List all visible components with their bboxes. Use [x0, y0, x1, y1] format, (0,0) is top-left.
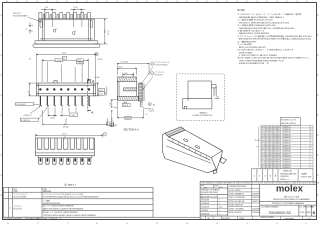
- boxed datum label 17.50: [55, 59, 63, 62]
- svg-text:MATERIAL AND FINISHES : SEE TA: MATERIAL AND FINISHES : SEE TABLE 1: [239, 16, 284, 19]
- svg-text:53.0: 53.0: [277, 162, 280, 164]
- svg-text:NTS: NTS: [219, 187, 224, 189]
- datum box left bottom: [110, 124, 114, 127]
- svg-text:5304801060: 5304801060: [282, 156, 291, 158]
- svg-text:74.3: 74.3: [277, 151, 280, 153]
- svg-text:1.25: 1.25: [45, 7, 48, 9]
- frame ruler ticks right: [317, 15, 319, 195]
- svg-text:0.05 M: 0.05 M: [123, 105, 129, 107]
- svg-text:APPLICATION SPECIFICATION(CONN: APPLICATION SPECIFICATION(CONNECTOR MANU…: [239, 38, 311, 41]
- svg-text:58.9: 58.9: [270, 164, 273, 166]
- svg-text:78.9: 78.9: [273, 140, 276, 142]
- svg-text:48.8: 48.8: [273, 162, 276, 164]
- svg-text:16: 16: [310, 129, 312, 131]
- svg-text:8.06: 8.06: [119, 66, 122, 68]
- svg-text:43.8: 43.8: [266, 129, 269, 131]
- svg-text:KINK FORMED PIN : ②: KINK FORMED PIN : ②: [239, 62, 269, 65]
- svg-text:REV: REV: [312, 206, 315, 208]
- svg-text:PSD: PSD: [300, 212, 305, 214]
- svg-text:53048: 53048: [239, 218, 244, 220]
- overall dim: [36, 134, 103, 138]
- overall dim 21.1: [36, 54, 98, 83]
- svg-text:(3.75): (3.75): [73, 7, 78, 9]
- svg-text:76.6: 76.6: [266, 159, 269, 161]
- svg-text:85.5: 85.5: [270, 151, 273, 153]
- dim (1.25) top left: [41, 9, 56, 27]
- svg-text:(1.9): (1.9): [99, 90, 103, 92]
- svg-text:3: 3: [310, 164, 311, 166]
- svg-text:56.1: 56.1: [266, 137, 269, 139]
- svg-text:53048000-SD: 53048000-SD: [269, 211, 292, 215]
- bottom hatched band: [117, 96, 138, 100]
- feet: [39, 158, 91, 165]
- left rotated dim 3.40: [111, 100, 118, 108]
- svg-text:CIRCUIT SIZE: CIRCUIT SIZE: [301, 176, 313, 178]
- svg-text:2: 2: [104, 134, 105, 136]
- bottom sheet row: [281, 216, 303, 219]
- svg-text:5304801110: 5304801110: [282, 143, 291, 145]
- housing side outline: [188, 81, 211, 99]
- svg-text:molex: molex: [276, 183, 304, 194]
- svg-text:PRODUCT SPECIFICATION 51760002: PRODUCT SPECIFICATION 517600025-PS-000: [239, 21, 289, 24]
- svg-text:18.9: 18.9: [277, 126, 280, 128]
- svg-text:4: 4: [310, 162, 311, 164]
- svg-text:14: 14: [310, 134, 312, 136]
- svg-text:70.9: 70.9: [270, 134, 273, 136]
- top bumps: [54, 81, 91, 84]
- mid col revision rows: [228, 184, 260, 216]
- svg-text:5304801170: 5304801170: [282, 126, 291, 128]
- balloon labels right: [151, 61, 170, 76]
- title: [273, 197, 311, 201]
- svg-text:2010/04/09: 2010/04/09: [252, 208, 261, 210]
- section cut A-A: [88, 79, 91, 112]
- svg-text:P1: P1: [20, 218, 22, 220]
- svg-text:1.3: 1.3: [25, 29, 27, 31]
- svg-text:60.9: 60.9: [277, 134, 280, 136]
- svg-text:2 PLACES: 2 PLACES: [201, 206, 210, 209]
- caption: [193, 112, 213, 118]
- svg-text:65.3: 65.3: [261, 162, 264, 164]
- svg-text:(4.4): (4.4): [124, 73, 128, 75]
- svg-text:83.9: 83.9: [277, 143, 280, 145]
- svg-text:71.1: 71.1: [277, 145, 280, 147]
- svg-text:85.2: 85.2: [273, 164, 276, 166]
- svg-text:53048-□□□□: 53048-□□□□: [280, 178, 290, 181]
- svg-text:83.5: 83.5: [270, 140, 273, 142]
- svg-text:8: 8: [310, 151, 311, 153]
- svg-text:11.1: 11.1: [273, 132, 276, 134]
- svg-text:59.6: 59.6: [273, 134, 276, 136]
- svg-text:INITIAL REVISION:: INITIAL REVISION:: [229, 204, 244, 207]
- front face: [166, 146, 211, 163]
- svg-text:80.4: 80.4: [273, 151, 276, 153]
- svg-text:mm: mm: [204, 187, 208, 189]
- solder-tail bumps row: [39, 12, 91, 18]
- svg-text:62.2: 62.2: [266, 148, 269, 150]
- body: [36, 83, 95, 96]
- left col cells: [200, 184, 228, 194]
- svg-text:83.4: 83.4: [266, 145, 269, 147]
- svg-text:5304801030: 5304801030: [282, 164, 291, 166]
- svg-text:AG RA/TC: AG RA/TC: [222, 217, 231, 220]
- svg-text:B 2.80±0.05: B 2.80±0.05: [16, 104, 25, 106]
- svg-text:1 of 1: 1 of 1: [306, 218, 312, 220]
- svg-text:1 PLACE: 1 PLACE: [201, 209, 209, 212]
- small dim 1.2: [145, 108, 149, 110]
- svg-text:17.5: 17.5: [277, 164, 280, 166]
- svg-text:IN CASE OF KINKED PIN: IN CASE OF KINKED PIN: [193, 114, 213, 117]
- svg-text:PLUG HOUSING: PLUG HOUSING: [14, 197, 28, 199]
- oval boss 1: [53, 29, 55, 32]
- svg-text:70.9: 70.9: [273, 126, 276, 128]
- svg-text:±: ±: [219, 200, 220, 202]
- svg-text:12.4: 12.4: [270, 148, 273, 150]
- svg-text:5304801130: 5304801130: [282, 137, 291, 139]
- svg-text:0 PLACES: 0 PLACES: [201, 212, 210, 215]
- svg-text:2020/11/13: 2020/11/13: [252, 201, 260, 203]
- svg-text:△1.00: △1.00: [70, 114, 75, 117]
- svg-text:17: 17: [310, 126, 312, 128]
- dim 8.06: [117, 68, 136, 75]
- svg-text:銅下地メッキ 1.00 MICRO METER MINIMU: 銅下地メッキ 1.00 MICRO METER MINIMUM: [43, 211, 78, 214]
- svg-text:〈E〉: 〈E〉: [207, 217, 212, 220]
- svg-text:25.0: 25.0: [277, 148, 280, 150]
- svg-text:47.9: 47.9: [261, 156, 264, 158]
- svg-text:87.2: 87.2: [270, 143, 273, 145]
- svg-text:2: 2: [152, 73, 153, 75]
- lower overall dim under legs: [42, 110, 107, 125]
- svg-text:14.2: 14.2: [270, 137, 273, 139]
- pin exiting right: [211, 85, 218, 99]
- svg-text:5304801040: 5304801040: [282, 162, 291, 164]
- svg-text:6: 6: [310, 156, 311, 158]
- svg-text:9.10: 9.10: [105, 30, 107, 33]
- svg-text:N=1.25: N=1.25: [255, 140, 261, 142]
- svg-text:13.4: 13.4: [266, 143, 269, 145]
- svg-text:(5.75): (5.75): [108, 30, 110, 35]
- svg-text:39.5: 39.5: [261, 143, 264, 145]
- svg-text:TABLE 1: TABLE 1: [68, 183, 77, 186]
- svg-text:60.2: 60.2: [261, 132, 264, 134]
- svg-text:(0.64): (0.64): [95, 77, 100, 79]
- right vertical dim of front view: [96, 83, 99, 96]
- letter cells row: [251, 169, 313, 182]
- svg-text:5304801150: 5304801150: [282, 132, 291, 134]
- svg-text:DRWN: RWMARTIN: DRWN: RWMARTIN: [229, 193, 245, 196]
- document number row: [260, 205, 317, 216]
- svg-text:66.2: 66.2: [261, 137, 264, 139]
- svg-text:NOTES: NOTES: [237, 10, 245, 12]
- svg-text:APPLY FOR EVEN CIRCUIT: APPLY FOR EVEN CIRCUIT: [239, 46, 267, 49]
- svg-text:15.6: 15.6: [266, 151, 269, 153]
- svg-text:58.7: 58.7: [261, 159, 264, 161]
- svg-text:18.7: 18.7: [273, 145, 276, 147]
- pin column (cross hatched): [139, 83, 143, 101]
- centerline tick: [64, 136, 66, 139]
- svg-text:21.90: 21.90: [62, 134, 66, 136]
- svg-text:73.3: 73.3: [273, 137, 276, 139]
- svg-text:1.2: 1.2: [145, 114, 147, 116]
- svg-text:MATES WITH 51760 SERIES: MATES WITH 51760 SERIES: [239, 32, 270, 35]
- body: [36, 138, 95, 156]
- svg-text:4 PLACES: 4 PLACES: [201, 199, 210, 202]
- svg-text:NOTE: THAN 2 CIRCUIT PINS AT B: NOTE: THAN 2 CIRCUIT PINS AT BOTH ENDS A…: [238, 57, 311, 60]
- svg-text:APPR: HYOSHIOKA: APPR: HYOSHIOKA: [229, 200, 245, 203]
- svg-text:CIRCUIT 1: CIRCUIT 1: [24, 115, 32, 117]
- svg-text:2: 2: [96, 54, 97, 56]
- svg-text:57.9: 57.9: [270, 126, 273, 128]
- svg-text:70.8: 70.8: [273, 129, 276, 131]
- dim 11.6: [117, 63, 149, 75]
- svg-text:13.4: 13.4: [266, 134, 269, 136]
- mid band: [124, 88, 137, 91]
- svg-text:50.5: 50.5: [273, 156, 276, 158]
- tall dim between views: [110, 110, 113, 127]
- svg-text:14.4: 14.4: [261, 153, 264, 155]
- svg-text:1.8: 1.8: [29, 58, 31, 60]
- svg-text:B 2.80/2.54: B 2.80/2.54: [21, 120, 30, 122]
- svg-text:MATERIAL: MATERIAL: [43, 190, 51, 193]
- svg-text:74.6: 74.6: [266, 140, 269, 142]
- svg-text:7.50: 7.50: [78, 63, 81, 65]
- svg-text:80.7: 80.7: [277, 129, 280, 131]
- frame ruler ticks left: [1, 15, 3, 195]
- svg-text:PLUG PIN: PLUG PIN: [155, 74, 164, 76]
- svg-text:78.0: 78.0: [273, 153, 276, 155]
- svg-text:CHK'D: HYOSHIOKA: CHK'D: HYOSHIOKA: [229, 196, 246, 199]
- svg-text:39.3: 39.3: [270, 129, 273, 131]
- svg-text:ITEM: ITEM: [14, 191, 19, 193]
- right end face: [207, 151, 222, 173]
- circuit indicator mark label: [13, 13, 28, 17]
- base plate: [33, 44, 100, 47]
- svg-text:11: 11: [310, 143, 312, 145]
- svg-text:ポリエステル ガラス入り UL94V-0 色 ナチュラル(白: ポリエステル ガラス入り UL94V-0 色 ナチュラル(白): [43, 193, 83, 196]
- svg-text:23.9: 23.9: [270, 153, 273, 155]
- svg-text:40.9: 40.9: [261, 126, 264, 128]
- svg-text:3 PLACES: 3 PLACES: [201, 202, 210, 205]
- svg-text:10: 10: [310, 145, 312, 147]
- svg-text:2: 2: [10, 207, 11, 209]
- svg-text:63.9: 63.9: [261, 164, 264, 166]
- svg-text:(UNLESS SPECIFIED): (UNLESS SPECIFIED): [201, 192, 219, 194]
- svg-text:3.40: 3.40: [105, 92, 107, 95]
- svg-text:43.6: 43.6: [277, 137, 280, 139]
- svg-text:35.6: 35.6: [277, 153, 280, 155]
- svg-text:3.96: 3.96: [126, 118, 129, 120]
- lower body: [183, 99, 212, 109]
- right small refs: [148, 103, 154, 113]
- svg-text:5304801140: 5304801140: [282, 134, 291, 136]
- svg-text:PLUG PIN: PLUG PIN: [14, 208, 23, 210]
- svg-text:未指定公差: 未指定公差: [283, 170, 292, 173]
- bottom dim 3.96: [117, 101, 143, 118]
- svg-text:±: ±: [219, 213, 220, 215]
- fitting nail ear: [220, 158, 227, 164]
- svg-text:1: 1: [152, 64, 153, 66]
- svg-text:76.6: 76.6: [270, 132, 273, 134]
- svg-text:PACKAGING SPECIFICATION : 5304: PACKAGING SPECIFICATION : 530480000-SPK-…: [239, 27, 294, 30]
- svg-text:5304801090: 5304801090: [282, 148, 291, 150]
- svg-text:74.4: 74.4: [277, 159, 280, 161]
- zone numbers below bottom border: [7, 223, 307, 225]
- svg-text:CURRENT REV DESC:: CURRENT REV DESC:: [229, 186, 247, 188]
- svg-text:2020/11/13: 2020/11/13: [252, 197, 260, 199]
- svg-text:POLYESTER(PBT),GLASS FILLED,UL: POLYESTER(PBT),GLASS FILLED,UL94 V-0,COL…: [43, 196, 99, 199]
- svg-text:EC NO: 652090: EC NO: 652090: [229, 190, 241, 192]
- svg-text:09:35:08: 09:35:08: [51, 218, 58, 220]
- svg-text:2 CIRCUIT PINS TO BE NOT KINKE: 2 CIRCUIT PINS TO BE NOT KINKED: [239, 55, 278, 57]
- svg-text:50.0: 50.0: [266, 164, 269, 166]
- svg-text:SINGLE ROW RIGHT ANGLE PLUG AS: SINGLE ROW RIGHT ANGLE PLUG ASSEMBLY: [273, 198, 311, 201]
- svg-text:NATURAL (WHITE): NATURAL (WHITE): [281, 122, 296, 125]
- svg-text:86.8: 86.8: [270, 159, 273, 161]
- svg-text:△17.50: △17.50: [56, 59, 62, 62]
- svg-text:11.7: 11.7: [261, 129, 264, 131]
- svg-text:7: 7: [310, 153, 311, 155]
- svg-text:APPR: TSUZUKI: APPR: TSUZUKI: [229, 211, 242, 214]
- svg-text:SECTION A-A: SECTION A-A: [124, 128, 140, 131]
- svg-text:ORDER NO.: ORDER NO.: [280, 176, 290, 178]
- pins (circles): [39, 88, 90, 90]
- svg-text:3.40: 3.40: [110, 103, 112, 106]
- front chamfer band with terminal ticks: [167, 140, 210, 161]
- oval boss 2: [73, 31, 75, 34]
- legs: [40, 96, 91, 106]
- svg-text:GENERAL MARKING: GENERAL MARKING: [280, 172, 297, 175]
- svg-text:51.8: 51.8: [273, 143, 276, 145]
- svg-text:0.10 M: 0.10 M: [149, 110, 155, 112]
- svg-text:KINK FORM: KINK FORM: [239, 52, 253, 54]
- pitch dim row 2: [42, 59, 88, 82]
- svg-text:43.8: 43.8: [270, 162, 273, 164]
- svg-text:15.4: 15.4: [261, 134, 264, 136]
- boxed labels below with triangles: [123, 102, 127, 103]
- svg-text:PRODUCT CUSTOMER DRAWING: PRODUCT CUSTOMER DRAWING: [272, 202, 304, 205]
- svg-text:ANGULAR TOL ±3.0°: ANGULAR TOL ±3.0°: [201, 195, 218, 198]
- tail ends dark: [40, 158, 90, 161]
- svg-text:PHOSPHOR BRONZE: PHOSPHOR BRONZE: [43, 203, 61, 205]
- tolerance rows: [200, 195, 228, 215]
- boxed X datum: [62, 56, 66, 59]
- svg-text:2020/12/16: 2020/12/16: [39, 218, 48, 220]
- svg-text:PLUG HOUSING: PLUG HOUSING: [155, 65, 169, 67]
- right-side vertical dim: [94, 19, 107, 44]
- svg-text:27.6: 27.6: [277, 156, 280, 158]
- svg-text:11.6±0.08: 11.6±0.08: [121, 62, 128, 64]
- svg-text:87.9: 87.9: [261, 151, 264, 153]
- tail going down: [140, 101, 143, 108]
- left vertical dim: [28, 83, 36, 96]
- dim (3.75) top right: [70, 9, 85, 27]
- outer of block: [200, 184, 260, 219]
- svg-text:5304801100: 5304801100: [282, 145, 291, 147]
- left wall: [117, 82, 119, 101]
- boxed label 2.80/2.54: [16, 102, 34, 106]
- svg-text:GENERAL: GENERAL: [284, 217, 295, 220]
- svg-text:15: 15: [310, 132, 312, 134]
- slots: [38, 138, 94, 149]
- svg-text:SHEET NUMBER: SHEET NUMBER: [261, 217, 275, 219]
- svg-text:23.3: 23.3: [261, 145, 264, 147]
- frame ruler ticks top: [7, 1, 307, 3]
- svg-text:INDICATOR MARK: INDICATOR MARK: [13, 15, 28, 18]
- svg-text:48.6: 48.6: [266, 162, 269, 164]
- svg-text:THE OTHER PINS ARE KINK FORMED: THE OTHER PINS ARE KINK FORMED TO ②: [239, 59, 284, 62]
- svg-text:5: 5: [310, 159, 311, 161]
- grid: [261, 125, 313, 169]
- pitch dims under feet: [48, 108, 76, 117]
- svg-text:錫メッキ 1.00MICRO METER MINIMUM: 錫メッキ 1.00MICRO METER MINIMUM: [43, 205, 74, 208]
- svg-text:DOCUMENT STATUS: DOCUMENT STATUS: [3, 217, 20, 220]
- flange: [38, 156, 92, 158]
- svg-text:DRWN: YKODAIRA: DRWN: YKODAIRA: [229, 207, 245, 210]
- svg-text:(19.05): (19.05): [63, 127, 69, 129]
- left end face: [162, 133, 165, 158]
- bottom peg: [213, 169, 217, 174]
- svg-text:21.10: 21.10: [62, 53, 66, 55]
- left small dim: [29, 23, 34, 35]
- inner wall lines: [39, 19, 95, 41]
- svg-text:5304801160: 5304801160: [282, 129, 291, 131]
- svg-text:54.1: 54.1: [261, 148, 264, 150]
- top face: [169, 130, 223, 158]
- svg-text:3.40: 3.40: [99, 94, 102, 96]
- svg-text:2020/09/17: 2020/09/17: [252, 194, 261, 196]
- svg-text:±: ±: [219, 203, 220, 205]
- svg-text:30.9: 30.9: [277, 132, 280, 134]
- boxed datum label below circuit1: [20, 118, 38, 121]
- dim (4.4): [123, 73, 134, 77]
- section body: top hatched band: [117, 77, 136, 82]
- svg-text:15.5: 15.5: [270, 156, 273, 158]
- product customer drawing row: [260, 201, 317, 205]
- svg-text:5.50: 5.50: [112, 118, 114, 121]
- svg-text:23.9: 23.9: [273, 159, 276, 161]
- svg-text:回路数: 回路数: [302, 173, 307, 176]
- pin front face: [137, 82, 144, 101]
- svg-text:5304801080: 5304801080: [282, 151, 291, 153]
- svg-text:SER: SER: [306, 212, 311, 214]
- svg-text:HOUSING COLOR:: HOUSING COLOR:: [281, 120, 296, 122]
- svg-text:COPPER PLATING UNDER PLATING 1: COPPER PLATING UNDER PLATING 1.00MICRO M…: [43, 214, 96, 217]
- svg-text:MATTE TIN PLATING 1.00MICRO M: MATTE TIN PLATING 1.00MICRO METER MINIMU…: [43, 207, 84, 210]
- svg-text:5304801050: 5304801050: [282, 159, 291, 161]
- symbols row left: [200, 215, 260, 217]
- rear hatched rail: [165, 127, 185, 137]
- svg-text:(2.50): (2.50): [50, 117, 55, 119]
- svg-text:4.1: 4.1: [28, 91, 30, 93]
- svg-text:64.6: 64.6: [273, 148, 276, 150]
- svg-text:39.2: 39.2: [266, 132, 269, 134]
- svg-text:1: 1: [10, 196, 11, 198]
- housing body outline: [39, 19, 95, 41]
- svg-text:48.6: 48.6: [261, 140, 264, 142]
- svg-text:43.2: 43.2: [266, 156, 269, 158]
- flange: [35, 41, 98, 44]
- svg-text:10.1: 10.1: [266, 153, 269, 155]
- svg-text:79.2: 79.2: [266, 126, 269, 128]
- proprietary strip: [200, 181, 316, 184]
- svg-text:DOCUMENT NUMBER: DOCUMENT NUMBER: [261, 207, 279, 209]
- svg-text:(0.64): (0.64): [98, 59, 103, 61]
- svg-text:9: 9: [310, 148, 311, 150]
- svg-text:12: 12: [310, 140, 312, 142]
- svg-text:±: ±: [219, 210, 220, 212]
- svg-text:5304801120: 5304801120: [282, 140, 291, 142]
- svg-text:62.9: 62.9: [277, 140, 280, 142]
